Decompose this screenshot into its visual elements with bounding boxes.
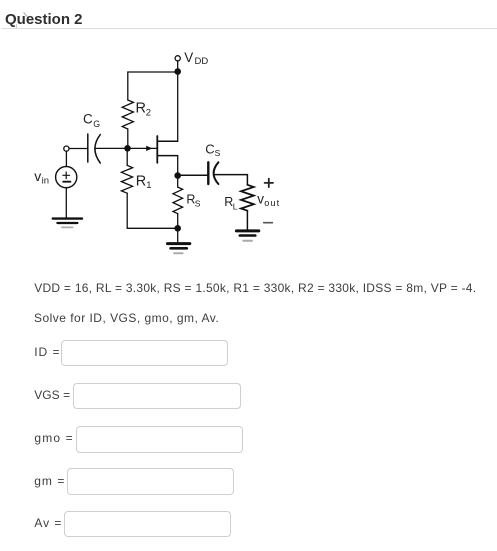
svg-text:2: 2	[146, 108, 151, 119]
wire R2 bottom lead	[127, 129, 129, 148]
answer row Av	[34, 517, 62, 529]
label RS	[186, 192, 200, 208]
wire ground stem	[177, 228, 179, 242]
svg-text:v: v	[34, 168, 41, 184]
problem statement line 1	[34, 282, 476, 294]
wire source to CS	[178, 174, 209, 176]
svg-text:V: V	[184, 50, 193, 65]
wire RS bottom lead	[177, 214, 179, 229]
wire vin bottom lead	[65, 188, 67, 219]
svg-text:DD: DD	[195, 56, 209, 67]
ground RL	[236, 231, 258, 241]
wire top rail	[128, 71, 178, 73]
svg-text:R: R	[136, 101, 146, 117]
resistor R2	[122, 100, 133, 129]
label R2	[136, 101, 151, 119]
label minus	[264, 222, 273, 224]
wire input to CG	[69, 148, 88, 150]
wire drain riser	[177, 72, 179, 142]
wire gate	[95, 147, 157, 149]
svg-text:1: 1	[146, 180, 151, 191]
circuit schematic	[0, 0, 497, 270]
wire RS top lead	[177, 179, 179, 187]
header rule	[2, 28, 497, 29]
answer row gmo	[34, 432, 73, 444]
cursor artifact over header	[23, 12, 28, 17]
svg-text:in: in	[42, 175, 49, 186]
svg-text:C: C	[205, 141, 214, 156]
wire R1 bottom lead	[126, 193, 128, 228]
label CS	[205, 141, 220, 158]
label RL	[224, 195, 238, 212]
svg-text:S: S	[195, 198, 201, 208]
ground RS	[168, 244, 190, 254]
label VDD	[184, 50, 208, 67]
wire R2 top lead	[127, 72, 129, 100]
node gate junction	[124, 145, 131, 152]
label vout	[257, 192, 280, 208]
resistor RS	[173, 187, 183, 214]
input terminal	[64, 146, 69, 151]
source vin	[56, 167, 77, 188]
answer row VGS	[34, 389, 70, 401]
svg-text:R: R	[136, 173, 146, 189]
resistor R1	[121, 165, 132, 193]
label CG	[83, 111, 100, 129]
capacitor CG	[88, 134, 101, 163]
answer row ID	[34, 346, 60, 358]
answer row gm	[34, 475, 65, 487]
label plus	[265, 179, 273, 187]
node ground junction	[174, 225, 181, 232]
capacitor CS	[208, 162, 218, 184]
transistor Q1 JFET	[146, 136, 178, 163]
svg-text:out: out	[264, 198, 280, 208]
header title	[5, 11, 83, 28]
label vin	[34, 168, 49, 186]
problem statement line 2	[34, 312, 219, 324]
VDD terminal	[175, 56, 180, 61]
svg-text:C: C	[83, 111, 93, 126]
wire vin top lead	[65, 151, 67, 166]
node source junction	[174, 172, 181, 179]
wire source drop	[177, 156, 179, 176]
wire RL bottom lead	[246, 211, 248, 230]
resistor RL	[241, 185, 254, 211]
wire CS to RL	[214, 175, 247, 185]
svg-text:L: L	[233, 202, 238, 212]
wire bottom rail	[127, 227, 178, 229]
label R1	[136, 173, 152, 191]
node VDD junction	[174, 68, 181, 75]
wire R1 top lead	[126, 148, 128, 165]
svg-text:S: S	[215, 148, 221, 158]
ground vin	[53, 219, 82, 228]
caret artifact under header	[16, 24, 17, 29]
svg-text:G: G	[93, 119, 100, 129]
wire VDD stem	[177, 61, 179, 72]
